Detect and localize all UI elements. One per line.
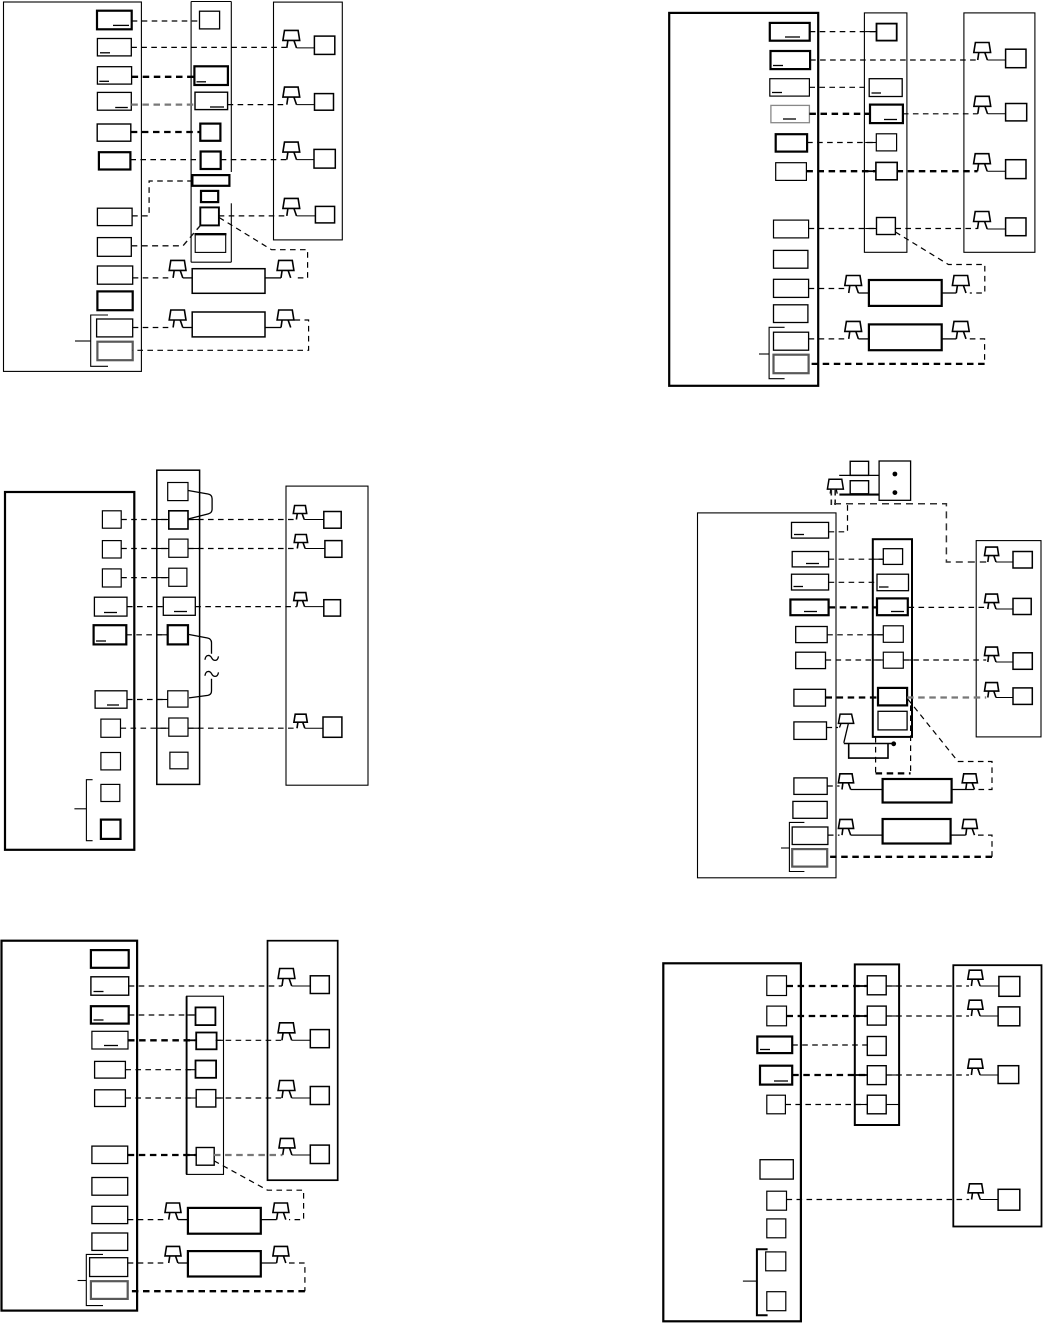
wire bottom thick (diagram 2) [809,363,985,365]
wire row4 thick (diagram 5) [128,1039,195,1041]
wire row4 right (diagram 3) [195,606,296,608]
connector T3b (diagram 2) [770,79,810,96]
wire row6 thick (diagram 2) [806,170,876,172]
wire row7 right gray (diagram 5) [214,1154,283,1156]
wire stub S5 right (diagram 6) [886,1104,899,1106]
connector T9d (diagram 4) [794,778,827,795]
wire row8 (diagram 4) [827,727,839,729]
connector T10b (diagram 2) [774,305,808,323]
wire row9 left (diagram 1) [133,277,172,279]
fuse S9 (diagram 1) [200,207,219,225]
wire row5 thick (diagram 1) [131,131,201,133]
connector T6a (diagram 1) [99,152,130,169]
connector T1d (diagram 4) [792,522,829,538]
connector T6c (diagram 3) [95,691,127,708]
connector T6d (diagram 4) [796,652,826,668]
wire row4 right (diagram 6) [886,1074,969,1076]
connector T11b (diagram 2) [774,332,809,350]
wire row4 right (diagram 1) [228,104,287,106]
wire row11 (diagram 2) [809,338,847,340]
consumer E1 with plug (diagram 3) [293,506,306,514]
ground bracket (diagram 4) [789,822,804,871]
wire row1 (diagram 2) [810,31,877,33]
wire row2 (diagram 3) [121,548,169,550]
wire stub S2 left (diagram 5) [187,1039,197,1041]
consumer group outline (diagram 3) [286,486,368,785]
connector T11e (diagram 5) [90,1258,128,1277]
wire bottom elbow (diagram 1) [133,320,309,350]
wire to connector T1d (diagram 4) [829,504,848,532]
wire row9 to plug (diagram 1) [219,215,287,217]
wire stub S1 right (diagram 3) [188,519,200,521]
connector T5e (diagram 5) [95,1061,126,1078]
fuse box column (diagram 2) [864,13,907,252]
fuse S3 (diagram 6) [867,1037,886,1056]
wire row11 (diagram 5) [128,1262,167,1264]
wire row6 right (diagram 5) [216,1097,282,1099]
fuse S2 (diagram 4) [877,574,909,591]
consumer E4 with plug (diagram 6) [968,1184,983,1193]
connector T12d (diagram 4) [792,849,827,867]
wire stub S1 left (diagram 2) [865,31,876,33]
motor V1 (diagram 4) [838,774,853,783]
consumer E4 with plug (diagram 5) [279,1138,295,1148]
wire bottom elbow vertical (diagram 2) [970,339,985,364]
wire stub S1 left (diagram 4) [873,558,884,560]
plug symbol top (diagram 4) [827,479,843,489]
relay plate (diagram 1) [192,175,229,186]
wire diagonal to motor (diagram 5) [214,1161,304,1220]
wire row4 thick (diagram 4) [829,606,877,608]
fuse S8 (diagram 3) [170,752,188,769]
wire row3 (diagram 5) [129,1014,195,1016]
wire stub S7 right (diagram 3) [188,727,200,729]
fuse S6 (diagram 3) [168,691,188,707]
fuse S1 (diagram 1) [200,11,220,29]
wire row7 right gray (diagram 4) [907,696,986,698]
connector T2f (diagram 6) [767,1006,787,1026]
wire stub S5 left (diagram 6) [855,1104,868,1106]
control unit J519 (diagram 1 outline) [4,2,142,371]
wire row6 (diagram 4) [826,659,884,661]
fuse S6 (diagram 2) [876,162,897,179]
wire from plug down (diagram 4) [830,490,832,507]
wire stub S1 left (diagram 3) [157,519,169,521]
wire row9 (diagram 2) [809,288,847,290]
connector T1f (diagram 6) [767,976,787,996]
consumer E4 with plug (diagram 3) [294,714,307,722]
control unit outline (diagram 4) [698,513,837,878]
wire stub S4 left (diagram 2) [865,113,870,115]
motor V2 (diagram 4) [838,819,853,828]
fuse S6 (diagram 4) [878,688,907,706]
consumer E2 with plug (diagram 6) [968,1000,983,1009]
consumer E1 with plug (diagram 2) [974,43,991,53]
fuse S7 (diagram 3) [169,718,188,736]
wire row7 right (diagram 2) [895,228,977,230]
wire stub S2 right (diagram 6) [886,1015,899,1017]
wire diagonal to motor (diagram 2) [895,232,984,293]
consumer E3 with plug (diagram 5) [278,1081,295,1091]
wire row6 (diagram 1) [130,159,200,161]
wire row4 thick (diagram 6) [792,1074,867,1076]
consumer group outline (diagram 1) [274,2,343,240]
fuse box column (diagram 5) [187,996,224,1174]
control unit outline (diagram 3) [5,492,134,850]
consumer E1 with plug (diagram 5) [278,969,295,979]
wire row2 right (diagram 6) [886,1015,969,1017]
wire row3 (diagram 2) [809,86,869,88]
wire row5 (diagram 3) [126,634,167,636]
wire row4 (diagram 3) [127,606,163,608]
connector T12e (diagram 5) [91,1281,128,1299]
wire row5 (diagram 6) [785,1104,867,1106]
wire row1 (diagram 3) [121,519,169,521]
wire stub S4 left (diagram 6) [855,1074,868,1076]
wire row1 (diagram 1) [132,20,200,22]
consumer E4 with plug (diagram 1) [283,198,300,208]
jumper link S5-S6 with break marks (diagram 3) [189,635,212,654]
consumer E3 with plug (diagram 2) [974,154,991,164]
fuse S1 (diagram 3) [169,511,188,529]
battery terminal box A (diagram 4) [850,461,868,475]
fuse S5 (diagram 6) [867,1095,886,1114]
wire row4 right (diagram 5) [216,1039,282,1041]
fuse S0 (diagram 3) [168,483,188,501]
wire bottom elbow (diagram 4) [978,835,992,857]
connector T3e (diagram 5) [91,1006,129,1023]
consumer E4 with plug (diagram 2) [974,212,991,222]
fuse S2 (diagram 5) [196,1033,216,1050]
connector T7a (diagram 1) [97,208,132,225]
connector T4d (diagram 4) [790,600,828,616]
connector T1c (diagram 3) [102,511,121,528]
connector T6b (diagram 2) [776,163,807,181]
fuse S8 (diagram 1) [201,191,218,202]
connector T5c (diagram 3) [94,625,127,644]
connector T8b (diagram 2) [774,250,808,268]
wire stub S1 right (diagram 6) [886,985,899,987]
fuse S1 (diagram 2) [877,24,897,41]
wire stub S4 right (diagram 5) [216,1097,224,1099]
connector T3c (diagram 3) [102,569,121,587]
wire stub S7 left (diagram 2) [865,228,876,230]
wire bottom thick (diagram 4) [827,856,992,858]
motor V2 (diagram 5) [165,1246,181,1256]
fuse S7 (diagram 4) [878,711,907,730]
wire row3 (diagram 3) [121,577,169,579]
wire row7 thick (diagram 4) [826,696,879,698]
wire stub S5 left (diagram 3) [157,634,168,636]
connector face with pins (diagram 4) [879,461,911,500]
ground bracket (diagram 6) [757,1249,768,1315]
fuse box column (diagram 4) [873,539,912,737]
connector T7e (diagram 5) [92,1146,128,1163]
wire stub S5 left (diagram 2) [865,142,876,144]
ground bracket (diagram 5) [86,1254,103,1305]
connector T6f (diagram 6) [760,1160,793,1179]
connector T1e (diagram 5) [91,950,129,968]
wire stub S2 left (diagram 6) [855,1015,868,1017]
wire row6 (diagram 3) [127,699,168,701]
wire row7 long (diagram 6) [787,1199,970,1201]
connector T2c (diagram 3) [102,541,121,558]
connector T8f (diagram 6) [767,1219,786,1238]
connector T10e (diagram 5) [92,1233,128,1250]
fuse S6 (diagram 1) [201,152,221,170]
connector T9e (diagram 5) [92,1206,128,1223]
control unit outline (diagram 2) [669,13,818,386]
connector T8d (diagram 4) [794,722,827,740]
wire top run (diagram 4) [834,504,986,562]
fuse box column (diagram 3) [157,470,200,784]
motor V1 (diagram 1) [169,260,186,270]
wire stub S2 right (diagram 5) [217,1039,224,1041]
fuse S5 (diagram 1) [200,124,220,141]
terminal rail thick (diagram 4) [839,494,879,496]
fuse S1 (diagram 4) [883,549,902,565]
connector T4c (diagram 3) [94,597,127,616]
connector T8a (diagram 1) [97,238,131,257]
wire row11 (diagram 4) [828,834,840,836]
fuse S7 (diagram 2) [877,218,896,235]
connector T5d (diagram 4) [796,627,828,643]
wire row6 right thick (diagram 2) [897,170,978,172]
wire row5 (diagram 4) [827,634,883,636]
fuse S5 (diagram 3) [168,625,188,644]
connector T10d (diagram 4) [793,801,827,818]
connector T9c (diagram 3) [101,784,120,801]
connector T4e (diagram 5) [92,1031,128,1049]
fuse S3 (diagram 3) [169,568,187,586]
wire row2 long (diagram 5) [129,985,282,987]
consumer E3 with plug (diagram 4) [985,647,999,656]
fuse S5 (diagram 5) [196,1148,214,1166]
wire stub S6 left (diagram 3) [157,699,168,701]
connector T3d (diagram 4) [792,574,829,590]
relay wire and plate (diagram 4) [844,743,892,745]
wire row3 (diagram 6) [792,1044,867,1046]
wire row7 thick (diagram 5) [128,1154,197,1156]
connector T4b (diagram 2) [771,105,810,122]
motor V1 (diagram 5) [165,1203,181,1213]
wire row7 right (diagram 3) [188,727,297,729]
wire row4 gray (diagram 1) [131,103,195,105]
wire row2 (diagram 2) [810,59,977,61]
battery terminal box B (diagram 4) [850,481,868,494]
relay plug symbol (diagram 4) [838,714,853,723]
fuse S5 (diagram 4) [883,652,903,668]
ground bracket (diagram 1) [91,315,108,366]
wire row4 thick (diagram 2) [809,113,870,115]
fuse S5 (diagram 2) [876,134,896,151]
fuse S4 (diagram 2) [870,105,903,124]
consumer E3 with plug (diagram 6) [968,1059,983,1068]
terminal rail thin (diagram 4) [839,474,879,476]
wire row9 (diagram 4) [827,785,839,787]
connector T3a (diagram 1) [97,67,131,84]
wire loop around fuse S7 (diagram 4) [875,737,877,774]
connector T8c (diagram 3) [101,753,121,770]
wire row5 (diagram 5) [125,1069,194,1071]
motor V2 (diagram 1) [169,310,186,320]
wire diagonal to relay (diagram 1) [219,218,308,278]
fuse S2 (diagram 3) [169,539,188,557]
ground bracket (diagram 2) [769,327,785,378]
fuse S3 (diagram 2) [869,79,902,97]
consumer E3 with plug (diagram 1) [283,142,300,152]
wire row1 thick (diagram 6) [787,985,868,987]
connector T10a (diagram 1) [97,291,132,310]
fuse S3 (diagram 4) [877,598,908,615]
connector T9f (diagram 6) [766,1252,786,1271]
connector T7d (diagram 4) [794,689,826,706]
wire row8 diagonal (diagram 1) [131,225,200,245]
fuse S1 (diagram 5) [196,1007,216,1025]
connector T12a (diagram 1) [97,342,132,361]
wire stub S4 right (diagram 6) [886,1074,899,1076]
control unit outline (diagram 6) [663,963,801,1321]
wire stub S1 left (diagram 6) [855,985,868,987]
connector T2e (diagram 5) [91,977,129,995]
connector T12b (diagram 2) [774,355,809,374]
connector T6e (diagram 5) [95,1090,126,1107]
consumer E2 with plug (diagram 4) [985,594,999,603]
consumer group outline (diagram 6) [953,965,1041,1226]
wire stub S3 left (diagram 5) [187,1069,196,1071]
control unit outline (diagram 5) [2,941,138,1311]
consumer group outline (diagram 5) [268,941,338,1180]
wire row4 right (diagram 4) [909,606,987,608]
consumer E1 with plug (diagram 4) [985,547,999,556]
motor V1 (diagram 2) [845,276,862,286]
fuse S4 (diagram 5) [196,1090,216,1107]
connector T5f (diagram 6) [767,1095,786,1114]
consumer E2 with plug (diagram 1) [283,87,300,97]
wire row1 right (diagram 6) [886,985,969,987]
connector T11a (diagram 1) [97,319,133,337]
wire row1 right (diagram 3) [188,519,296,521]
ground bracket (diagram 3) [86,780,92,841]
consumer E4 with plug (diagram 4) [985,683,999,692]
consumer E2 with plug (diagram 2) [974,96,991,106]
wire row7 (diagram 2) [809,228,877,230]
connector T4a (diagram 1) [97,92,131,110]
motor V2 (diagram 2) [845,321,862,331]
connector T9a (diagram 1) [97,266,132,284]
connector T11d (diagram 4) [792,827,828,845]
wire stub S4 left (diagram 5) [187,1097,197,1099]
wire diagonal to motor (diagram 4) [908,699,992,789]
connector T2b (diagram 2) [771,51,811,69]
wire row11 left (diagram 1) [133,327,172,329]
wire row3 (diagram 4) [829,581,877,583]
consumer E3 with plug (diagram 3) [294,593,307,601]
consumer E1 with plug (diagram 6) [968,970,983,979]
wire row6 (diagram 5) [125,1097,194,1099]
connector T1b (diagram 2) [770,23,810,41]
wire row2 (diagram 4) [829,558,884,560]
consumer E1 with plug (diagram 1) [283,30,300,40]
consumer E2 with plug (diagram 5) [278,1023,295,1033]
wire row4 right (diagram 2) [903,113,978,115]
wire stub S3 left (diagram 3) [157,577,169,579]
wire row2 thick (diagram 6) [787,1015,868,1017]
wire row3 thick (diagram 1) [132,76,195,78]
connector T8e (diagram 5) [92,1178,128,1196]
connector T5a (diagram 1) [97,124,131,141]
wire stub S5 left (diagram 4) [873,659,884,661]
wire bottom elbow (diagram 5) [289,1263,305,1291]
connector T3f (diagram 6) [757,1037,792,1054]
fuse box column (diagram 1) [190,2,192,263]
fuse S4 (diagram 1) [195,92,228,109]
connector T7f (diagram 6) [767,1191,787,1210]
connector T2a (diagram 1) [97,39,131,56]
wire stub S1 left (diagram 5) [187,1014,196,1016]
wire stub S2 left (diagram 3) [157,548,169,550]
connector T10c (diagram 3) [101,820,121,839]
fuse S1 (diagram 6) [867,976,886,995]
wire row2 (diagram 1) [131,46,286,48]
wire row2 right (diagram 3) [188,548,297,550]
wire stub S2 right (diagram 3) [188,548,200,550]
connector T10f (diagram 6) [767,1292,786,1311]
wire row5 (diagram 2) [807,142,876,144]
connector T2d (diagram 4) [792,552,828,567]
jumper link S0-S1 (diagram 3) [188,491,212,519]
fuse S3 (diagram 1) [194,66,228,85]
wire row9 (diagram 5) [128,1219,167,1221]
fuse box column (diagram 6) [855,964,899,1125]
wire elbow row7 (diagram 1) [132,181,192,216]
consumer group outline (diagram 4) [976,541,1041,737]
wire stub S5 right (diagram 4) [903,659,912,661]
connector T5b (diagram 2) [776,134,807,151]
wire row6 right (diagram 4) [903,659,986,661]
wire bottom thick (diagram 5) [128,1290,305,1292]
connector T9b (diagram 2) [774,279,809,297]
wire loop bottom thick (diagram 4) [876,772,911,774]
consumer E2 with plug (diagram 3) [294,535,307,543]
fuse S4 (diagram 4) [883,626,903,643]
wire stub S5 left (diagram 5) [187,1154,197,1156]
wire row6 right (diagram 1) [221,159,287,161]
consumer group outline (diagram 2) [964,13,1035,252]
fuse S3 (diagram 5) [196,1061,217,1078]
wire stub S4 left (diagram 4) [873,634,884,636]
connector T7c (diagram 3) [101,719,121,737]
connector T7b (diagram 2) [774,220,809,238]
connector T1a (diagram 1) [97,11,132,30]
fuse S4 (diagram 6) [867,1066,886,1085]
wire stub S7 left (diagram 3) [157,727,169,729]
connector T4f (diagram 6) [760,1066,792,1085]
relay J4 (diagram 1) [195,234,226,253]
fuse S4 (diagram 3) [163,597,195,615]
fuse S2 (diagram 6) [867,1006,886,1025]
wire stub S6 left (diagram 2) [865,170,876,172]
wire row7 (diagram 3) [121,727,169,729]
